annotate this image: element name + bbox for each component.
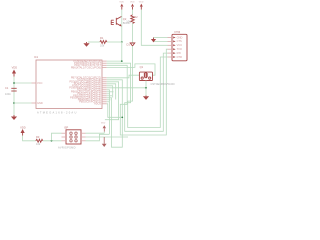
wire ISP VCC to VDD mid <box>86 132 105 134</box>
svg-text:RXI: RXI <box>177 51 182 55</box>
wire VDD to R2 <box>132 10 134 15</box>
resistor R3 <box>36 135 43 146</box>
diode D1 <box>127 43 135 47</box>
svg-text:ATMEGA168-20AU: ATMEGA168-20AU <box>37 111 78 115</box>
svg-text:R1: R1 <box>100 36 104 40</box>
wire IC GND pin row to resonator gnd <box>107 87 146 89</box>
IC1 left pin stubs <box>32 83 37 103</box>
VDD supply bottom-left <box>20 126 26 136</box>
wire FTDI CTS row <box>154 38 168 42</box>
connector X1 FTDI <box>172 30 187 61</box>
svg-text:10k: 10k <box>36 142 41 146</box>
resistor R1 <box>100 36 107 48</box>
wire TXD net: IC to FTDI TXO <box>107 49 168 135</box>
wire junction up to ISP top-left <box>52 133 62 141</box>
svg-text:TXO: TXO <box>177 47 182 51</box>
wire R3 to ISP bottom-left <box>43 140 62 142</box>
wire stub row PB4 <box>107 101 109 103</box>
wire corner row SCK <box>107 104 123 118</box>
wire FTDI GND row <box>154 37 168 39</box>
svg-text:GND: GND <box>177 35 183 39</box>
resonator Q1 <box>139 65 175 86</box>
wire RXD net: IC to FTDI RXI <box>107 53 168 131</box>
ground resonator <box>143 96 149 100</box>
wire VDD to R3 <box>23 136 36 141</box>
svg-text:CTS: CTS <box>177 39 182 43</box>
VDD supply top (transistor line) <box>119 1 124 9</box>
junction left VCC <box>13 82 15 84</box>
svg-text:ISP: ISP <box>64 126 68 130</box>
wire resonator gnd stem <box>145 81 147 96</box>
capacitor C1 <box>5 86 17 96</box>
svg-text:AVRISPSMD: AVRISPSMD <box>58 146 76 150</box>
svg-text:ADC6: ADC6 <box>94 102 101 106</box>
svg-text:FTDI: FTDI <box>175 30 181 34</box>
wire VDD down to gnd left <box>13 77 15 116</box>
FTDI pin glyphs and names <box>173 35 182 59</box>
IC1 right pin stubs group2 <box>102 78 107 104</box>
IC1 pin name texts right side <box>69 59 101 106</box>
wire stub row PD7 <box>107 91 114 93</box>
ground FTDI <box>151 38 156 43</box>
svg-text:100n: 100n <box>5 92 11 96</box>
svg-text:DTR: DTR <box>177 55 182 59</box>
wire VDD down to node <box>121 10 123 43</box>
IC1 pin name texts left side <box>37 81 43 105</box>
svg-text:IC1: IC1 <box>34 55 39 59</box>
wire ladder row PD4 staircase <box>107 84 116 100</box>
junction reset ISP <box>51 140 53 142</box>
wire resistor to gnd arrow <box>88 41 100 43</box>
wire node down to IC reset pin <box>107 42 122 61</box>
svg-text:GND: GND <box>37 101 43 105</box>
IC1 main box <box>34 55 102 115</box>
svg-text:VDD: VDD <box>101 123 106 125</box>
wire ladder bottom U <box>107 80 123 147</box>
svg-text:VCC: VCC <box>177 43 183 47</box>
wire VDD to FTDI VCC <box>141 10 167 46</box>
junction left GND <box>13 102 15 104</box>
junction at reset pin row <box>121 60 123 62</box>
wire XTAL2 loop over resonator <box>107 64 155 75</box>
wire to GND pin <box>14 102 32 104</box>
svg-text:C1: C1 <box>5 86 9 90</box>
wire node to resistor R1 <box>107 41 122 43</box>
svg-text:Q1: Q1 <box>140 65 144 69</box>
wire stub row PB1 <box>107 95 112 97</box>
wire reset net: D1 down, jog, U bottom, up to FTDI DTR <box>128 46 168 128</box>
wire stub row PB3 <box>107 99 111 101</box>
svg-text:10k: 10k <box>100 44 105 48</box>
svg-text:D1: D1 <box>127 43 131 47</box>
wire ISP gnd rail <box>86 136 129 138</box>
ground symbol mid-bottom <box>102 137 107 147</box>
svg-text:VDD: VDD <box>119 1 124 3</box>
wire ladder row PD3 staircase <box>105 82 119 120</box>
ISP header <box>58 126 81 150</box>
FTDI pin stubs <box>168 38 173 58</box>
wire stub row PB0 <box>107 93 110 95</box>
wire row PD6 down to ISP MOSI line <box>107 90 110 135</box>
junction reset node <box>121 41 123 43</box>
junction SCK corner <box>121 116 123 118</box>
transistor T1 <box>111 17 131 27</box>
svg-text:R2: R2 <box>134 15 138 19</box>
VDD supply FTDI <box>139 1 144 9</box>
wire ISP MOSI route <box>86 134 110 141</box>
resistor R2 vertical <box>126 15 138 24</box>
ground arrow left of R1 <box>83 42 89 47</box>
ground symbol bottom-left <box>11 115 17 120</box>
VDD supply (R2 line) <box>130 1 135 9</box>
svg-text:VDD: VDD <box>130 1 135 3</box>
wire to VCC pin <box>14 82 32 84</box>
svg-text:10k: 10k <box>126 20 131 24</box>
wire ladder row PD5 staircase <box>107 86 113 98</box>
svg-text:VCC: VCC <box>37 81 43 85</box>
junction gnd row <box>145 87 147 89</box>
wire XTAL1 to resonator left pin <box>107 75 140 78</box>
wire R2 to D1 <box>132 23 134 43</box>
IC1 right pin stubs group1 <box>102 61 107 67</box>
svg-text:CSTCE16M0V53-R0: CSTCE16M0V53-R0 <box>151 82 176 86</box>
svg-text:VDD: VDD <box>20 126 26 130</box>
svg-text:VDD: VDD <box>12 65 18 69</box>
svg-text:VDD: VDD <box>139 1 144 3</box>
svg-text:R3: R3 <box>36 135 40 139</box>
VDD supply left <box>12 65 18 76</box>
ISP pin stubs <box>62 133 86 141</box>
svg-text:PB6(XTAL1/TOSC1/PCI6): PB6(XTAL1/TOSC1/PCI6) <box>71 65 101 69</box>
VDD supply mid-bottom <box>101 123 106 134</box>
